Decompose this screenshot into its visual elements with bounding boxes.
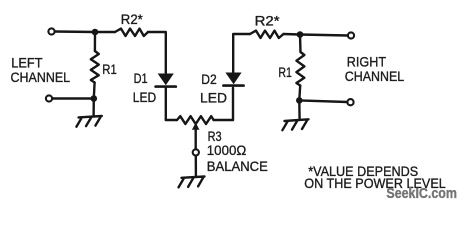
diode D1 LED (anode top, cathode bar bottom) [158, 74, 174, 86]
terminal: left channel top [48, 28, 54, 34]
wire: node A down to R1 left [94, 32, 96, 51]
svg-text:1000Ω: 1000Ω [207, 142, 247, 158]
node D (junction of R1, output, ground) [296, 97, 303, 104]
wire: wiper down to tap circle [194, 129, 196, 150]
terminal: left channel bottom [46, 95, 52, 101]
svg-text:R2*: R2* [121, 11, 144, 27]
svg-text:BALANCE: BALANCE [207, 158, 268, 174]
ground (right) [282, 119, 308, 130]
svg-text:D2: D2 [201, 71, 217, 87]
wire: D1 cathode down to balance line [165, 88, 167, 120]
node B (junction of input, R1, ground) [91, 95, 98, 102]
wire: R2 right to node C [284, 33, 301, 36]
wire: left top input to node A [55, 30, 95, 33]
wire: node D to right channel bottom terminal [299, 100, 347, 102]
resistor R2 (right) [250, 31, 284, 38]
wire: D2 anode up and right to R2 right [233, 34, 250, 73]
svg-text:R1: R1 [278, 64, 292, 80]
svg-text:CHANNEL: CHANNEL [11, 69, 71, 85]
svg-text:R1: R1 [102, 61, 117, 77]
terminal: right channel top [348, 32, 354, 38]
wire: node C down to R1 right [299, 35, 302, 53]
svg-text:LED: LED [133, 89, 156, 105]
potentiometer R3 body [177, 116, 214, 124]
wire: node A to R2 left [95, 31, 115, 33]
wire: node D to right ground [298, 100, 301, 119]
wire: balance line left segment [166, 119, 177, 121]
wire: left bottom input to node B [52, 97, 94, 99]
terminal: right channel bottom [347, 99, 353, 105]
diode D2 LED [225, 73, 241, 85]
svg-text:SeekIC.com: SeekIC.com [386, 185, 457, 202]
node C (junction of R2, R1 right, output) [297, 31, 304, 38]
node: balance tap circle [193, 149, 199, 155]
node A (junction of input, R1, R2 left) [92, 29, 99, 36]
wire: node B to left ground [92, 99, 95, 117]
resistor R1 (left) [91, 51, 99, 83]
wire: R1 right bottom to node D [298, 86, 301, 101]
svg-text:R2*: R2* [255, 12, 281, 28]
ground (left) [76, 116, 101, 127]
ground (middle) [179, 177, 205, 188]
svg-text:CHANNEL: CHANNEL [345, 68, 405, 84]
svg-text:RIGHT: RIGHT [347, 54, 387, 70]
potentiometer R3 wiper arrow [192, 123, 200, 130]
wire: R1 left bottom to node B [93, 83, 96, 99]
resistor R2 (left) [115, 29, 148, 36]
wire: tap circle down to middle ground [195, 156, 197, 177]
svg-text:LED: LED [200, 89, 227, 105]
wire: D2 cathode down to balance line [232, 88, 234, 120]
wire: balance line right segment [214, 119, 233, 121]
wire: R2 left to D1 anode [148, 32, 166, 74]
svg-text:D1: D1 [134, 70, 148, 86]
wire: node C to right channel top terminal [300, 35, 348, 36]
resistor R1 (right) [296, 52, 304, 86]
